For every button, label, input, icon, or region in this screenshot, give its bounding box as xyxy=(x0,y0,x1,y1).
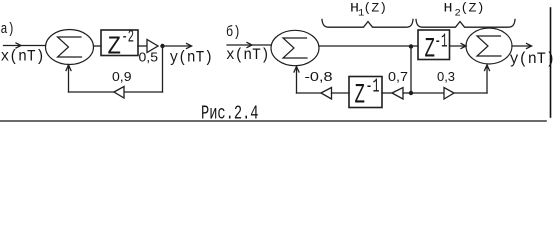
wire: Z3 to multiplier 0,7 xyxy=(382,92,392,94)
svg-text:-0,8: -0,8 xyxy=(305,70,333,84)
wire: feedback horizontal a xyxy=(124,91,163,93)
multiplier triangle -0,8 xyxy=(321,88,332,100)
svg-text:y(nT): y(nT) xyxy=(510,50,554,68)
svg-text:-1: -1 xyxy=(366,76,380,98)
wire: multiplier 0,7 to node C xyxy=(403,92,411,94)
svg-text:Z: Z xyxy=(425,35,436,66)
wire: feedback down from node A xyxy=(162,46,164,92)
wire: input to U1 xyxy=(4,45,46,47)
svg-text:(Z): (Z) xyxy=(364,1,388,16)
summing junction U1 xyxy=(46,30,94,65)
node B junction dot xyxy=(409,44,413,48)
wire: output y(nT) left xyxy=(163,45,192,47)
node A junction dot xyxy=(160,44,164,48)
svg-text:x(nT): x(nT) xyxy=(1,48,45,66)
page rule bottom xyxy=(0,120,546,122)
svg-text:-1: -1 xyxy=(435,31,448,53)
summing junction U2 xyxy=(271,30,319,65)
wire Z2 to U3 xyxy=(450,45,467,47)
svg-text:0,7: 0,7 xyxy=(388,70,408,84)
svg-text:0,9: 0,9 xyxy=(112,70,132,84)
wire: feedback up into U1 xyxy=(68,65,70,92)
svg-text:а): а) xyxy=(1,21,15,38)
svg-text:(Z): (Z) xyxy=(461,1,485,16)
brace H1 xyxy=(322,20,413,28)
scan artifact right edge xyxy=(550,8,552,117)
wire U1 to Z1 xyxy=(94,45,102,47)
arrowhead input a xyxy=(16,43,21,48)
svg-text:H: H xyxy=(444,1,453,16)
wire: input to U2 xyxy=(227,44,271,46)
wire: vertical node B to node C xyxy=(410,47,412,94)
arrowhead up into U3 xyxy=(485,65,490,71)
multiplier triangle 0,3 xyxy=(444,88,454,100)
wire U2 to node B xyxy=(319,45,418,47)
wire: feedback up into U2 xyxy=(296,67,298,94)
multiplier triangle 0,7 xyxy=(392,88,403,100)
multiplier triangle 0,5 xyxy=(147,40,158,53)
arrowhead up into U2 xyxy=(294,67,299,73)
svg-text:x(nT): x(nT) xyxy=(226,46,270,64)
multiplier triangle 0,9 xyxy=(114,87,124,99)
svg-text:0,5: 0,5 xyxy=(139,51,159,65)
arrowhead into U3 xyxy=(461,44,466,49)
wire Z1 to multiplier 0,5 xyxy=(138,45,147,47)
delay block Z1 value Z^-2 xyxy=(101,30,138,56)
svg-text:б): б) xyxy=(226,24,241,41)
node C junction dot xyxy=(409,91,413,95)
wire: multiplier 0,3 to U3 riser xyxy=(454,92,487,94)
summing junction U3 xyxy=(466,28,512,64)
arrowhead input b xyxy=(247,43,252,48)
svg-text:0,3: 0,3 xyxy=(437,70,455,84)
arrowhead output b xyxy=(527,44,532,49)
arrowhead output a xyxy=(187,44,192,49)
svg-text:Z: Z xyxy=(108,33,122,62)
wire: node C to multiplier 0,3 xyxy=(411,92,444,94)
wire: bottom feedback b segment 1 xyxy=(297,92,322,94)
svg-text:-2: -2 xyxy=(122,28,135,48)
arrowhead up into U1 xyxy=(66,65,71,71)
wire: segment triangle to Z3 xyxy=(332,92,350,94)
delay block Z2 value Z^-1 top xyxy=(418,30,450,60)
svg-text:y(nT): y(nT) xyxy=(170,49,214,67)
wire: output y(nT) right xyxy=(512,45,532,47)
delay block Z3 value Z^-1 bottom xyxy=(349,77,382,108)
svg-text:Z: Z xyxy=(355,81,366,112)
brace H2 xyxy=(416,20,515,28)
